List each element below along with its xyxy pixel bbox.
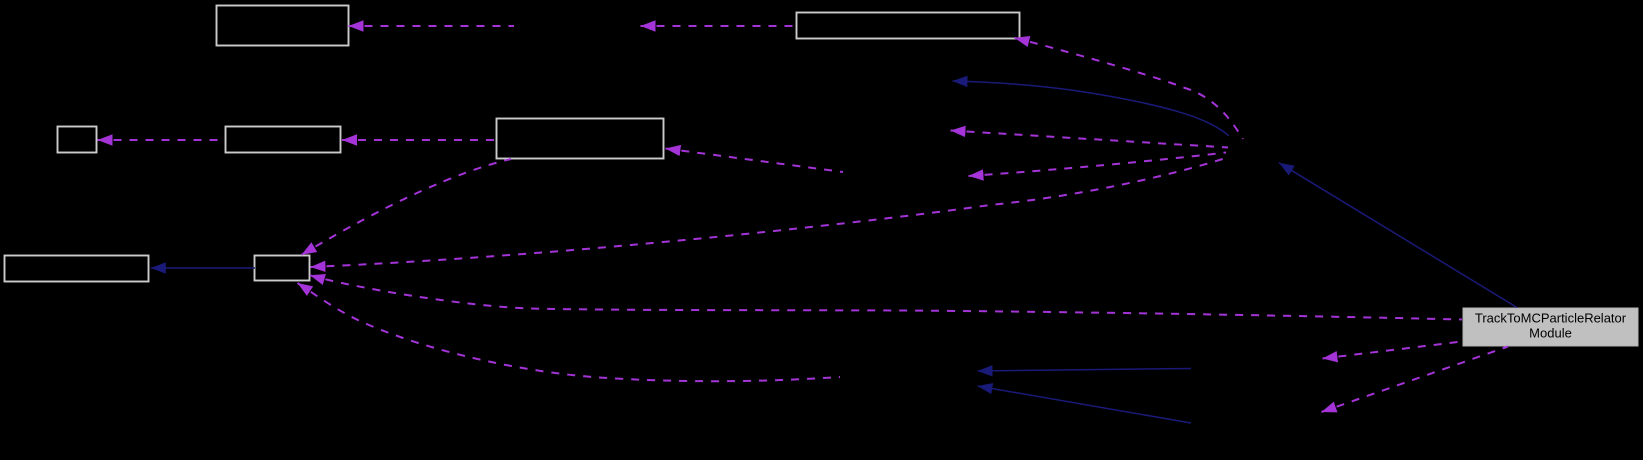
blue edge B1 (box G to box F): [151, 267, 255, 269]
dashed edge E7 (hub to lower invisible node): [969, 153, 1227, 177]
svg-text:TrackToMCParticleRelator: TrackToMCParticleRelator: [1475, 311, 1627, 326]
dashed edge E12 (invisible node curve to box G bottom corner): [298, 283, 841, 381]
dashed edge E11 (box E down to box G top corner): [302, 159, 512, 255]
node box B (top right): [797, 13, 1020, 39]
node box A (top left): [217, 6, 349, 46]
dashed edge E1 (into box A): [349, 25, 515, 27]
dashed edge E8 (invisible node to box E right): [666, 149, 844, 173]
dashed edge E14 (box H bottom to invisible node lower): [1322, 347, 1509, 413]
blue edge B5 (to bottom invisible node, lower): [978, 386, 1192, 423]
blue edge B4 (to bottom invisible node, upper): [978, 369, 1192, 372]
svg-text:Module: Module: [1529, 326, 1572, 341]
dashed edge E2 (from box B left): [641, 25, 797, 27]
dashed edge E13 (box H to invisible node left): [1323, 342, 1463, 359]
dashed edge E10 (box H long curve to box G right): [310, 275, 1462, 319]
dashed edge E4 (box E to box D): [342, 139, 496, 141]
dashed edge E9 (hub long curve to box G upper right): [311, 157, 1230, 267]
node box F (bottom left wide): [5, 256, 149, 282]
dashed edge E3 (box D to box C): [98, 139, 226, 141]
node box G (small hub left): [255, 256, 310, 281]
blue edge B2 (hub curve to upper invisible node): [953, 81, 1230, 136]
node box D (mid left): [226, 127, 341, 153]
node box E (center two-line): [497, 119, 664, 159]
node box C (small left): [58, 127, 97, 153]
node box H (TrackToMCParticleRelator Module, highlighted): [1463, 308, 1638, 346]
blue edge B3 (box H up to hub): [1279, 163, 1517, 308]
dashed edge E6 (hub to mid invisible node): [951, 131, 1229, 148]
dashed edge E5 (hub curve up to box B corner): [1015, 38, 1244, 139]
